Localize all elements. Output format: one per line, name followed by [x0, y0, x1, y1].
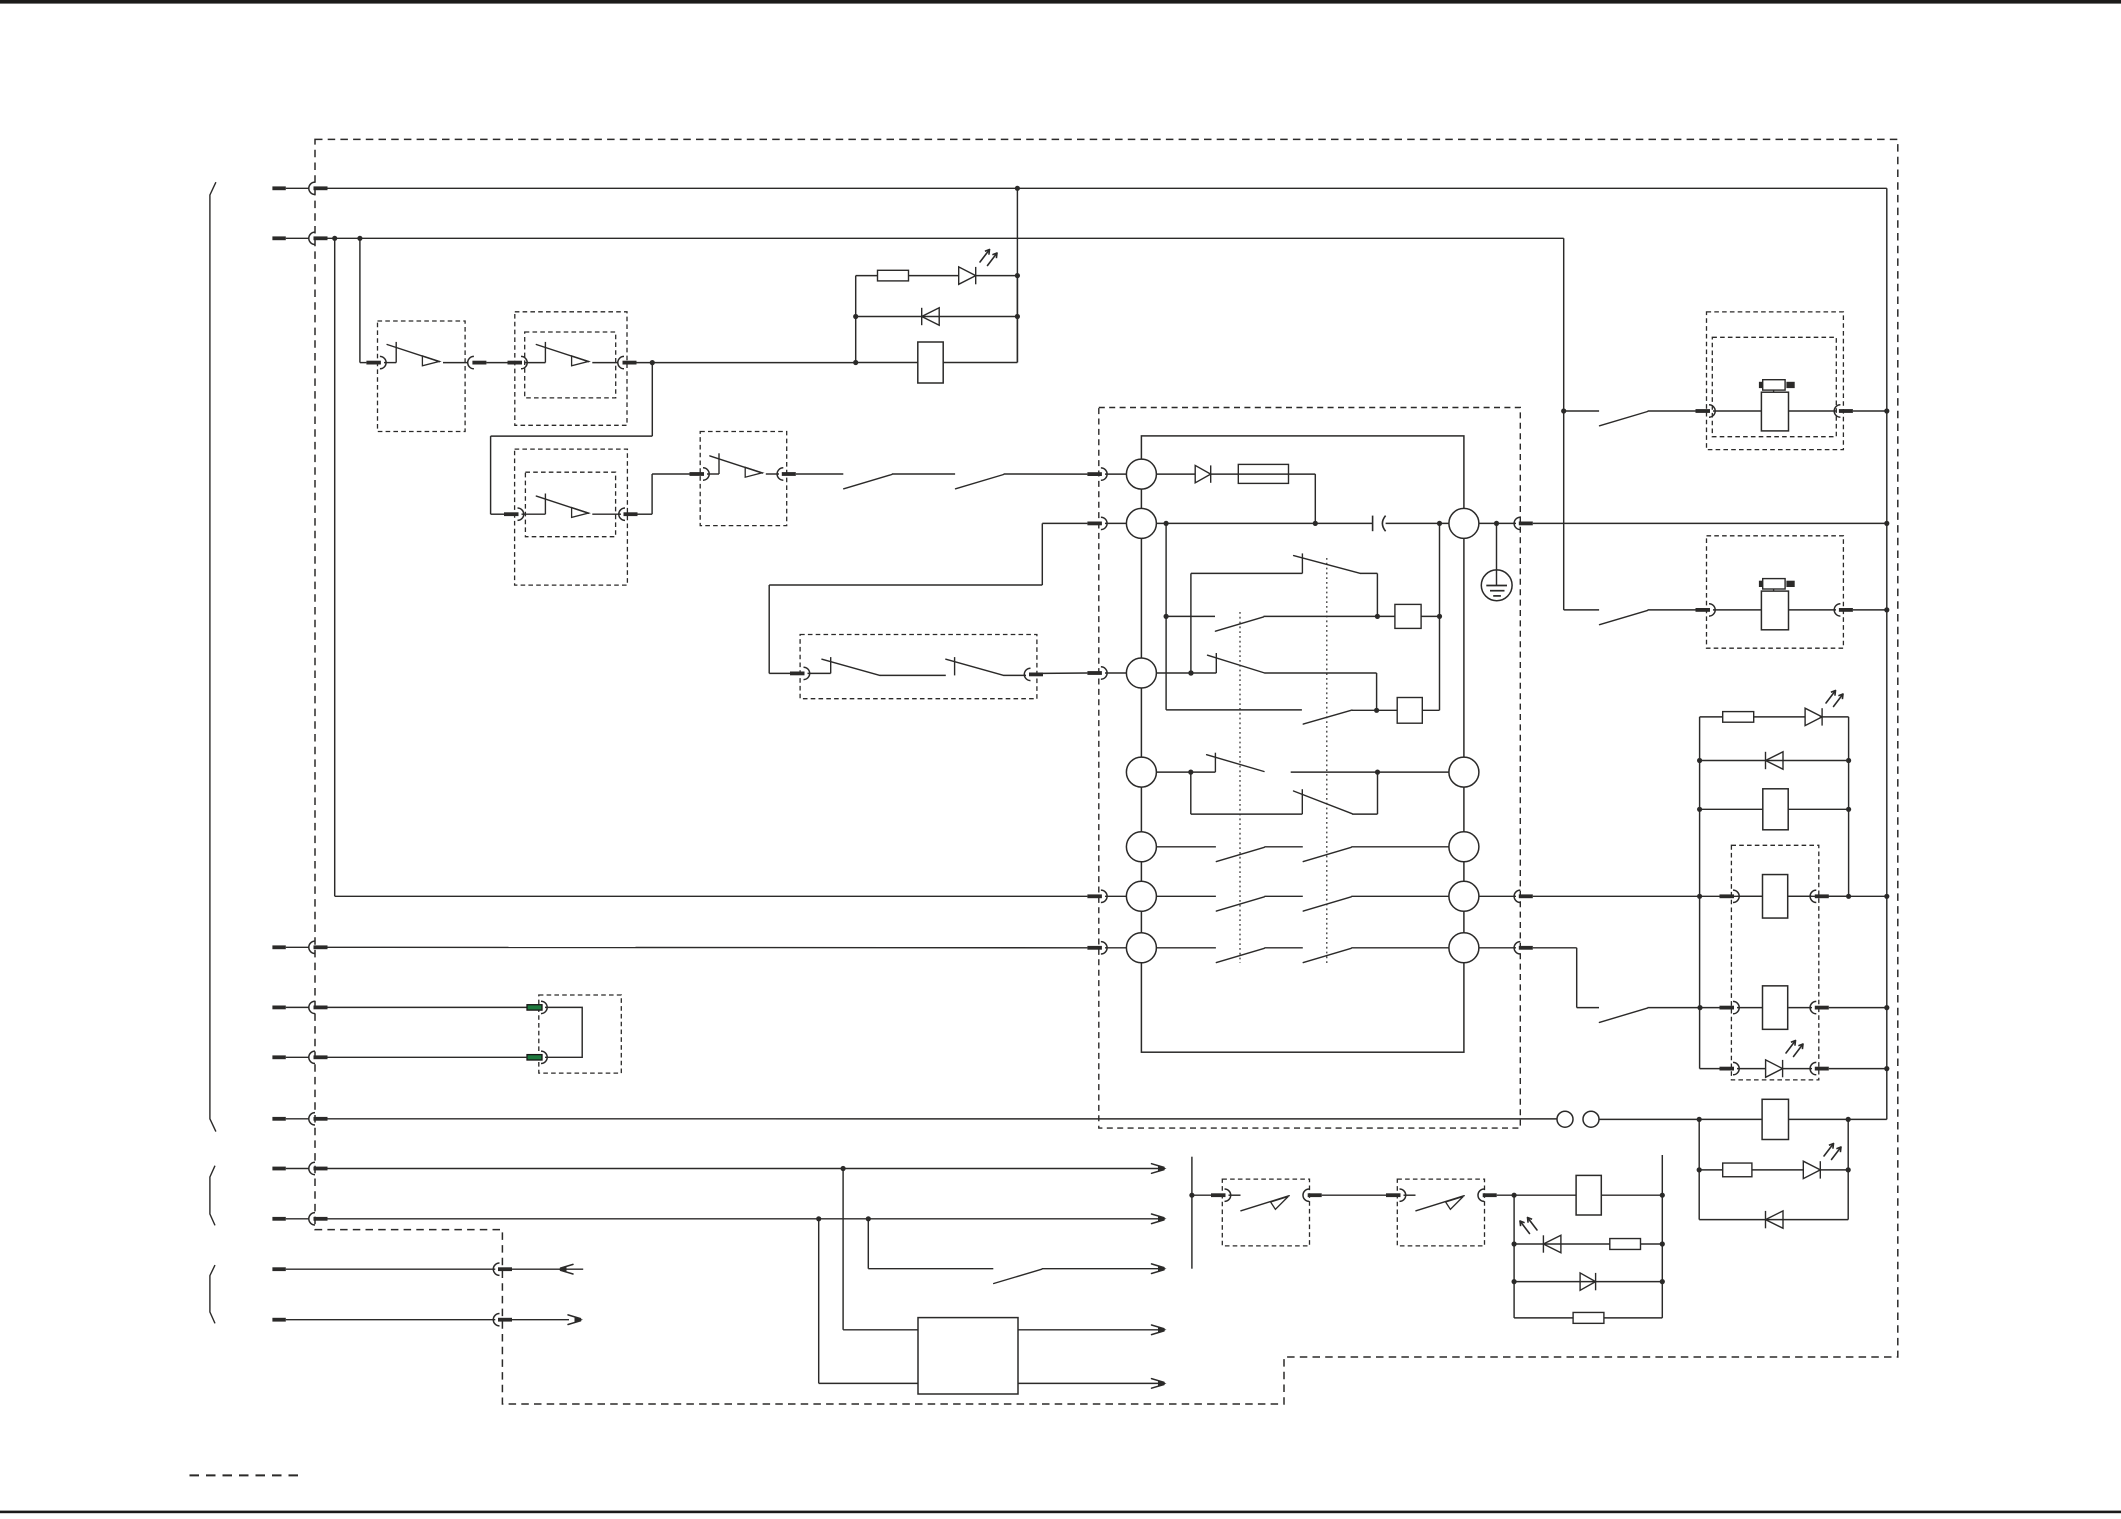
- thermo switch A output connector: [1303, 1189, 1309, 1201]
- row7 exit jog: down: [1576, 948, 1578, 1008]
- solenoid V1 outer dashed box: [1707, 312, 1844, 450]
- row6 switch blade 1: [1216, 897, 1264, 911]
- solenoid V1 output connector: [1834, 405, 1840, 417]
- wire buzzer to right bus: [1601, 1194, 1662, 1196]
- relay K2 lattice right bus: [1848, 717, 1850, 896]
- row4 bypass loop: down: [1190, 772, 1192, 814]
- row4 wire to pin R2: [1291, 771, 1449, 773]
- block pin L2 input connector: [1087, 522, 1102, 526]
- inner bus x=1439.5 row2 to rowD: [1439, 523, 1441, 710]
- buzzer coil BZ: [1576, 1175, 1601, 1215]
- wire fan feed run to pin L7: [328, 946, 1088, 949]
- row7 switch blade 1: [1216, 948, 1264, 962]
- service jumper input connector A: [527, 1005, 542, 1010]
- wire jumper B run: [328, 1056, 528, 1058]
- LED D7 emission arrows: [1824, 1144, 1834, 1157]
- wire row2 exit to right drop: [1533, 522, 1887, 524]
- timer linkage dotted line 1: [1239, 612, 1241, 963]
- row1 wire diode to fuse: [1211, 473, 1316, 475]
- rowD wire square to bus: [1422, 709, 1439, 711]
- diode D2 row wire: [856, 316, 1018, 318]
- thermal protector S3 input connector: [504, 512, 519, 516]
- relay module left bus: [1699, 896, 1701, 1068]
- arrow secondary 1: [1158, 1327, 1167, 1333]
- rowD blade (closes up-right): [1303, 710, 1352, 724]
- resistor R5: [1573, 1312, 1604, 1323]
- LED D7: [1803, 1161, 1820, 1178]
- wire into relay K3: [1737, 895, 1762, 897]
- LED D6: [1766, 1060, 1783, 1077]
- door switch SW1 (open): [844, 475, 892, 489]
- thermal protector S4 input connector: [690, 472, 705, 476]
- thermo switch A dashed box: [1222, 1179, 1309, 1246]
- arrow aux B (outgoing): [575, 1317, 584, 1323]
- relay module dashed box: [1731, 845, 1818, 1080]
- wire into pin L6: [1105, 895, 1126, 897]
- legend dashed sample line: [190, 1474, 303, 1476]
- node A junction wire L1 / lamp branch: [1015, 186, 1020, 191]
- block pin L5: [1126, 832, 1156, 862]
- wire to relay K3 entry: [1648, 1007, 1720, 1009]
- row7 exit jog wire to switch: [1577, 1007, 1599, 1009]
- wire transformer secondary 1: [1018, 1329, 1160, 1331]
- contact NC-A wire: [1191, 572, 1303, 574]
- interlock switch SW-a: [808, 672, 831, 674]
- row2 wire pin L2 to capacitor: [1156, 522, 1372, 524]
- solenoid V2 output connector: [1834, 604, 1840, 616]
- wire heater line stub: [272, 1117, 285, 1121]
- wire L2 feed horizontal: [769, 584, 1042, 586]
- wire protector chain drop: [359, 238, 361, 362]
- contact NC-B post: [1215, 653, 1217, 673]
- wire relay K3 to right bus: [1829, 895, 1849, 897]
- contact square K-b: [1397, 698, 1422, 724]
- wire to solenoid V1: [1648, 410, 1696, 412]
- wire N right drop to solenoid switches: [1563, 238, 1565, 610]
- block pin R3: [1449, 832, 1479, 862]
- thermo switch B stub wire: [1404, 1194, 1416, 1196]
- left harness bracket 2: [210, 1166, 215, 1226]
- resistor R5 row wire: [1514, 1317, 1662, 1319]
- relay coil K3: [1763, 875, 1788, 919]
- wire loop to S3: down: [651, 363, 653, 437]
- wire jumper A stub: [272, 1006, 285, 1010]
- node F junction transformer primary 2: [816, 1216, 821, 1221]
- relay K3 input connector: [1720, 894, 1735, 898]
- thermo switch B triangle: [1446, 1197, 1464, 1210]
- row7 wire mid: [1264, 947, 1302, 949]
- block pin L6: [1126, 881, 1156, 911]
- thermal protector S1 switch: [384, 362, 396, 364]
- diode D10 (points right): [1580, 1273, 1596, 1290]
- row2 wire capacitor to pin R1: [1386, 522, 1449, 524]
- rowC wire from bus: [1166, 615, 1215, 617]
- wire aux B with outgoing arrow: [512, 1319, 569, 1321]
- thermal protector S4 switch: [707, 473, 719, 475]
- connector J4 on boundary (fan feed): [309, 941, 315, 953]
- row7 switch blade 2: [1303, 948, 1351, 962]
- thermal protector S1 input connector: [366, 361, 381, 365]
- thermo switch A input connector: [1211, 1193, 1226, 1197]
- solenoid V2 feed switch blade: [1564, 609, 1599, 611]
- row2 wire pin R1 to exit: [1479, 522, 1516, 524]
- block pin R4: [1449, 881, 1479, 911]
- timer linkage dotted line 2: [1326, 558, 1328, 963]
- wire L1 right drop to loads: [1886, 188, 1888, 1119]
- wire heater line run: [328, 1118, 1558, 1120]
- LED D4: [1805, 708, 1822, 725]
- door sensor bus line: [1191, 1157, 1193, 1269]
- block pin R5: [1449, 933, 1479, 963]
- row5 switch blade 1: [1216, 847, 1264, 861]
- ground symbol: [1481, 570, 1512, 601]
- thermal protector S2 inner dashed box: [525, 332, 616, 398]
- thermal protector S2 input connector: [508, 361, 523, 365]
- solenoid V1 coil: [1761, 392, 1788, 431]
- row3 wire to right drop: [1265, 672, 1377, 674]
- wire solenoid V1 to right drop: [1853, 410, 1887, 412]
- inner bus x=1166 row2 to rowD: [1165, 523, 1167, 710]
- wire L2 feed from interlock: riser: [1041, 523, 1043, 585]
- thermo switch A blade: [1241, 1196, 1289, 1211]
- row6 wire to pin R4: [1351, 895, 1449, 897]
- block pin L1: [1126, 459, 1156, 489]
- LED D9 row wire: [1514, 1243, 1662, 1245]
- interlock output connector: [1024, 668, 1030, 680]
- wire drop to transformer primary 1: [842, 1169, 844, 1330]
- LED D9 (points left): [1542, 1235, 1544, 1252]
- contact NC-B blade: [1208, 655, 1265, 673]
- relay K4 output connector: [1810, 1001, 1816, 1013]
- block pin L3 input connector: [1087, 671, 1102, 675]
- connector J1 on boundary (wire L1): [309, 182, 315, 194]
- aux A boundary connector: [493, 1263, 499, 1275]
- connector J5 on boundary: [309, 1001, 315, 1013]
- wire sensor in stub: [272, 1217, 285, 1221]
- relay coil K5: [1762, 1099, 1788, 1139]
- row6 wire mid: [1264, 895, 1302, 897]
- service jumper dashed box: [539, 995, 622, 1073]
- wire N horizontal run: [328, 237, 1564, 239]
- connector J2 on boundary (wire N): [309, 232, 315, 244]
- row7 wire pin L7 to switch: [1156, 947, 1216, 949]
- wire to solenoid V2: [1648, 609, 1696, 611]
- resistor R3 row wire: [1699, 1169, 1803, 1171]
- row7 exit jog: right: [1533, 947, 1577, 949]
- row6 switch blade 2: [1303, 897, 1351, 911]
- diode D5 row wire: [1700, 760, 1849, 762]
- relay K2 lattice left bus: [1699, 717, 1701, 896]
- buzzer group right bus: [1661, 1155, 1663, 1318]
- block pin L3: [1126, 658, 1156, 688]
- capacitor C1: [1372, 516, 1374, 532]
- wire into pin L3: [1105, 672, 1126, 674]
- wire between door switches: [892, 473, 955, 475]
- LED D1 emission arrows: [980, 250, 990, 263]
- thermal protector S3 switch: [522, 513, 546, 515]
- thermal protector S3 inner dashed box: [525, 472, 615, 537]
- relay coil K4: [1763, 986, 1788, 1030]
- relay coil K1 row wire: [856, 362, 1018, 364]
- wire into solenoid V1: [1713, 410, 1761, 412]
- row5 wire to pin R3: [1351, 846, 1449, 848]
- fuse F1: [1238, 464, 1288, 483]
- thermal protector S4 dashed box: [700, 432, 787, 526]
- wire jumper B stub: [272, 1055, 285, 1059]
- wire into pin L1: [1105, 473, 1126, 475]
- diode D2 (points left): [921, 308, 923, 325]
- output switch blade (open): [994, 1269, 1042, 1283]
- row4 bypass blade: [1294, 791, 1353, 814]
- LED D6 input connector: [1720, 1067, 1735, 1071]
- wire switch B to buzzer group: [1497, 1194, 1576, 1196]
- wire L1 supply stub: [272, 186, 285, 190]
- wire fan feed stub: [272, 945, 285, 949]
- row6 wire pin L6 to switch: [1156, 895, 1216, 897]
- outer unit dashed boundary: [315, 139, 1898, 1404]
- block row6 output connector: [1514, 890, 1520, 902]
- block pin L2: [1126, 508, 1156, 538]
- block pin L7 input connector: [1087, 946, 1102, 950]
- LED D6 output connector: [1810, 1062, 1816, 1074]
- wire jumper A run: [328, 1006, 528, 1008]
- wire out of solenoid V1: [1789, 410, 1837, 412]
- row5 wire pin L5 to switch: [1156, 846, 1216, 848]
- wire relay K4 to right drop: [1829, 1007, 1887, 1009]
- wire sensor in run: [328, 1218, 1161, 1220]
- wire loop into S3: [491, 513, 505, 515]
- rowD wire to contact square 2: [1352, 709, 1397, 711]
- solenoid V2 dashed box: [1707, 536, 1844, 648]
- buzzer group left bus: [1513, 1195, 1515, 1318]
- node G junction switched output branch: [866, 1216, 871, 1221]
- top border bar: [0, 0, 2121, 4]
- timer block outer dashed box: [1099, 408, 1521, 1129]
- solenoid V1 input connector: [1696, 409, 1711, 413]
- arrow aux A (incoming): [558, 1266, 567, 1272]
- interlock mid wire: [880, 674, 946, 676]
- resistor R2 row wire: [1700, 716, 1806, 718]
- diode D3: [1195, 465, 1211, 482]
- row4 wire pin L4 to post: [1156, 771, 1215, 773]
- wire into pin L7: [1105, 947, 1126, 949]
- resistor R4: [1610, 1239, 1641, 1250]
- thermo switch B output connector: [1478, 1189, 1484, 1201]
- diode D8 row wire: [1699, 1219, 1848, 1221]
- contact NC-A left drop: [1190, 573, 1192, 673]
- wire aux A stub (outside boundary): [272, 1267, 285, 1271]
- block pin R2: [1449, 757, 1479, 787]
- LED D1: [959, 267, 976, 284]
- wire loop to S3: left: [491, 435, 653, 437]
- service jumper input connector B: [527, 1055, 542, 1060]
- wire transformer secondary 2: [1018, 1382, 1160, 1384]
- wire switched output: [1042, 1268, 1160, 1270]
- wire S3 output jog up: [638, 513, 653, 515]
- inline connector circle pair: [1557, 1111, 1573, 1127]
- timer block inner frame: [1141, 436, 1464, 1052]
- resistor R3: [1723, 1163, 1752, 1177]
- block pin L4: [1126, 757, 1156, 787]
- thermal protector S2 switch: [525, 362, 545, 364]
- row4 bypass wire: [1191, 813, 1303, 815]
- wire branch to output switch: [867, 1219, 869, 1269]
- aux B boundary connector: [493, 1314, 499, 1326]
- thermal protector S3 output connector: [619, 508, 625, 520]
- solenoid V1 inner dashed box: [1712, 337, 1836, 436]
- connector J6 on boundary: [309, 1051, 315, 1063]
- contact NC-A post: [1301, 553, 1303, 573]
- thermal protector S1 output connector: [468, 356, 474, 368]
- diode D8 (points left): [1765, 1211, 1767, 1228]
- node E junction sensor/transformer: [841, 1166, 846, 1171]
- contact NC-A output jog: [1361, 572, 1378, 574]
- left harness bracket 3: [210, 1265, 215, 1323]
- wire into relay K4: [1737, 1007, 1762, 1009]
- diode D5 (points left): [1765, 752, 1767, 769]
- resistor R1: [878, 270, 909, 281]
- relay K5 row wire: [1699, 1118, 1848, 1120]
- row3 wire pin L3 to post: [1156, 672, 1216, 674]
- LED D6 row from left bus: [1700, 1068, 1720, 1070]
- wire solenoid V2 to right drop: [1853, 609, 1887, 611]
- thermal protector S2 output connector: [618, 356, 624, 368]
- wire into pin L2: [1105, 522, 1126, 524]
- relay coil K2: [1763, 789, 1788, 830]
- LED D6 emission arrows: [1786, 1041, 1796, 1054]
- wire into solenoid V2: [1713, 609, 1761, 611]
- left harness bracket 1: [210, 182, 216, 1131]
- thermo switch B blade: [1416, 1196, 1464, 1211]
- row5 switch blade 2: [1303, 847, 1351, 861]
- thermal protector S3 outer dashed box: [515, 449, 628, 585]
- row4 changeover blade (open): [1207, 755, 1264, 772]
- wire sensor out stub: [272, 1167, 285, 1171]
- block pin L1 input connector: [1087, 472, 1102, 476]
- rowC wire to contact square 1: [1264, 615, 1395, 617]
- diode D10 row wire: [1514, 1281, 1662, 1283]
- wire lamp branch drop: [1016, 188, 1018, 362]
- rowD wire from bus corner: [1166, 709, 1302, 711]
- junction dots on right drop: [1884, 408, 1889, 413]
- thermal protector S2 outer dashed box: [515, 312, 627, 426]
- node C junction wire N / protector chain: [357, 236, 362, 241]
- row7 wire to pin R5: [1351, 947, 1449, 949]
- arrow sensor out: [1158, 1166, 1167, 1172]
- row5 wire mid: [1264, 846, 1302, 848]
- ground tap wire: [1496, 523, 1498, 585]
- wire interlock feed drop: [768, 585, 770, 673]
- row4 bypass post: [1301, 789, 1303, 814]
- interlock switch dashed box: [800, 635, 1037, 699]
- connector J8 on boundary: [309, 1213, 315, 1225]
- wire into LED D6: [1737, 1068, 1766, 1070]
- block row7 output connector: [1514, 942, 1520, 954]
- relay coil K2 row wire: [1700, 808, 1849, 810]
- wire S1-S2: [486, 362, 507, 364]
- node D output of protector chain: [650, 360, 655, 365]
- wire timer feed drop x=334.7: [334, 238, 336, 896]
- block pin R1: [1449, 508, 1479, 538]
- rowC switch blade (open): [1215, 617, 1263, 631]
- relay K5 lattice left bus: [1698, 1119, 1700, 1219]
- wire out of LED D6: [1783, 1068, 1812, 1070]
- wire loop to S3: down to row: [490, 436, 492, 514]
- row7 wire pin R5 to exit: [1479, 947, 1516, 949]
- block row2 output connector: [1514, 517, 1520, 529]
- interlock input connector: [790, 672, 805, 676]
- wire out of relay K4: [1789, 1007, 1813, 1009]
- row1 drop to row2: [1314, 474, 1316, 523]
- arrow sensor in: [1158, 1216, 1167, 1222]
- wire relay K5 to right drop: [1848, 1118, 1887, 1120]
- solenoid V1 feed switch blade: [1564, 410, 1599, 412]
- wire sensor out run: [328, 1168, 1161, 1170]
- row4 bypass wire to riser: [1352, 813, 1377, 815]
- wire aux B stub (outside boundary): [272, 1318, 285, 1322]
- solenoid V2 coil: [1761, 591, 1788, 630]
- resistor R2: [1723, 712, 1754, 723]
- relay K3 output connector: [1810, 890, 1816, 902]
- row6 wire exit to relay K2 group: [1533, 895, 1887, 897]
- transformer T1 box: [918, 1318, 1018, 1394]
- wire timer feed run to block pin L6: [335, 895, 1088, 897]
- relay K4 input connector: [1720, 1006, 1735, 1010]
- row4 changeover post: [1214, 753, 1216, 772]
- thermo switch A stub wire: [1229, 1194, 1241, 1196]
- node B junction wire N / timer feed: [332, 236, 337, 241]
- arrow secondary 2: [1158, 1380, 1167, 1386]
- rowC wire square to bus: [1421, 615, 1439, 617]
- thermo switch A triangle: [1271, 1197, 1289, 1210]
- LED D9 emission arrows: [1528, 1218, 1538, 1231]
- wire heater line to relay K5: [1599, 1118, 1699, 1120]
- solenoid V2 input connector: [1696, 608, 1711, 612]
- connector J7 on boundary: [309, 1162, 315, 1174]
- bottom border line: [0, 1511, 2121, 1514]
- wire aux A with incoming arrow: [512, 1268, 583, 1270]
- thermo switch B dashed box: [1397, 1179, 1484, 1246]
- wire out of solenoid V2: [1789, 609, 1837, 611]
- wire out of relay K3: [1789, 895, 1813, 897]
- wire chain output to lamp group: [637, 362, 856, 364]
- lamp group left bus: [855, 276, 857, 363]
- wire drop to transformer primary 2: [818, 1219, 820, 1384]
- block pin L7: [1126, 933, 1156, 963]
- thermo switch B input connector: [1386, 1193, 1401, 1197]
- row6 wire pin R4 to exit: [1479, 895, 1516, 897]
- block pin L6 input connector: [1087, 894, 1102, 898]
- wire interlock to pin L3: [1043, 672, 1087, 674]
- resistor R1 row wire: [856, 275, 959, 277]
- wire N supply stub: [272, 236, 285, 240]
- service jumper U-link: [545, 1007, 582, 1057]
- row1: wire pin L1 to diode: [1156, 473, 1195, 475]
- contact square K-a: [1395, 604, 1421, 628]
- door switch SW2 (open): [956, 475, 1004, 489]
- interlock switch SW-b: [954, 657, 956, 675]
- wire bus to thermo switch A: [1192, 1194, 1211, 1196]
- interlock output wire: [1004, 674, 1026, 676]
- LED D4 emission arrows: [1826, 691, 1836, 704]
- contact NC-A blade: [1294, 556, 1361, 574]
- wire L1 horizontal run: [328, 187, 1887, 189]
- connector J3 on boundary (heater line): [309, 1113, 315, 1125]
- relay coil K1: [918, 342, 943, 383]
- wire to door switch 1: [796, 473, 844, 475]
- wire switch A to switch B: [1322, 1194, 1386, 1196]
- wire to timer block pin 1: [1004, 473, 1088, 475]
